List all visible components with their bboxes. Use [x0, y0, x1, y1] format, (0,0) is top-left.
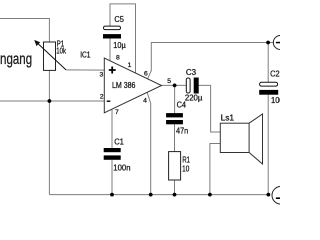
- svg-text:8: 8: [116, 54, 120, 61]
- wire C1 bottom to ground rail: [111, 160, 113, 195]
- wire bottom ground rail: [49, 194, 268, 196]
- capacitor C1 plate lower: [104, 155, 121, 159]
- svg-text:6: 6: [144, 71, 148, 78]
- supply terminal plus bar top right: [276, 42, 284, 44]
- wire C3 to speaker upper terminal: [199, 85, 221, 132]
- svg-text:C1: C1: [114, 138, 124, 147]
- svg-text:10µ: 10µ: [113, 41, 126, 50]
- speaker Ls1 cone: [249, 114, 262, 164]
- wire C5 bottom lead to pin 8: [109, 39, 111, 63]
- wire input bottom / pin 2 net from left edge to op-amp: [0, 100, 104, 102]
- svg-text:IC1: IC1: [80, 51, 91, 60]
- speaker Ls1 box: [220, 123, 249, 152]
- wire pot bottom lead: [48, 70, 50, 101]
- svg-text:4: 4: [143, 98, 147, 105]
- capacitor C2 positive plate (hollow): [260, 82, 278, 86]
- supply terminal circle top right: [273, 36, 287, 50]
- node junction output pin5: [173, 84, 177, 88]
- wire pot wiper to pin 3: [66, 69, 104, 71]
- capacitor C3 positive plate (hollow): [186, 78, 190, 93]
- wire pin 6 stub and riser to positive supply rail: [148, 43, 274, 79]
- op-amp plus input marking: [109, 67, 116, 74]
- node junction supply top right: [266, 41, 270, 45]
- svg-text:C4: C4: [177, 101, 187, 110]
- capacitor C4 plate upper: [166, 113, 183, 117]
- op-amp IC1 LM386 triangle: [104, 58, 161, 113]
- wire C2 top lead: [267, 43, 269, 83]
- wire input top from left edge to pot top: [0, 19, 49, 43]
- wire pin 4 stub and riser to ground rail: [147, 93, 151, 195]
- svg-text:5: 5: [167, 78, 171, 85]
- capacitor C5 negative plate (solid): [103, 34, 121, 38]
- wire speaker lower terminal to ground rail: [210, 144, 220, 195]
- svg-text:C5: C5: [114, 15, 124, 24]
- op-amp minus input marking: [107, 100, 111, 102]
- svg-text:2: 2: [100, 94, 104, 101]
- node junction pot bottom / pin2 net: [48, 99, 52, 103]
- resistor R1 body: [169, 152, 181, 180]
- svg-text:R1: R1: [182, 156, 190, 165]
- wire C4 to R1: [174, 124, 176, 151]
- node junction speaker ground: [208, 193, 212, 197]
- svg-text:C3: C3: [186, 68, 197, 77]
- node junction pin4 ground: [149, 193, 153, 197]
- wire C2 bottom lead to ground rail: [267, 95, 269, 195]
- svg-text:10: 10: [182, 165, 190, 174]
- node junction C2 ground: [267, 193, 271, 197]
- wire output pin 5 to C3: [162, 84, 187, 86]
- capacitor C5 positive plate (hollow): [104, 26, 121, 30]
- capacitor C1 plate upper: [104, 148, 121, 152]
- svg-text:220µ: 220µ: [185, 93, 203, 102]
- capacitor C3 negative plate (solid): [194, 78, 199, 94]
- svg-text:7: 7: [115, 109, 119, 116]
- node junction R1 ground: [173, 193, 177, 197]
- wire R1 to ground rail: [174, 180, 176, 195]
- wire C5 top lead and top link to pin 1 riser: [110, 4, 136, 73]
- capacitor C4 plate lower: [166, 120, 183, 124]
- svg-text:LM 386: LM 386: [112, 81, 136, 90]
- wire pin 7 to C1: [111, 109, 113, 148]
- svg-text:100µ: 100µ: [271, 96, 280, 105]
- wire output node down to C4: [174, 85, 176, 113]
- supply terminal minus bar bottom right: [276, 197, 284, 199]
- svg-text:47n: 47n: [176, 127, 188, 136]
- potentiometer P1 wiper arrow: [34, 40, 66, 70]
- svg-text:Eingang: Eingang: [0, 51, 32, 68]
- node junction C1 ground: [110, 193, 114, 197]
- capacitor C2 negative plate (solid): [259, 90, 278, 95]
- svg-text:1: 1: [128, 62, 132, 69]
- svg-text:10k: 10k: [56, 46, 67, 55]
- svg-text:100n: 100n: [113, 163, 130, 172]
- wire ground drop left: [48, 101, 50, 195]
- potentiometer P1 body: [44, 42, 56, 70]
- svg-text:C2: C2: [270, 70, 280, 79]
- svg-text:Ls1: Ls1: [221, 114, 235, 123]
- svg-text:3: 3: [100, 72, 104, 79]
- supply terminal circle bottom right: [272, 187, 290, 205]
